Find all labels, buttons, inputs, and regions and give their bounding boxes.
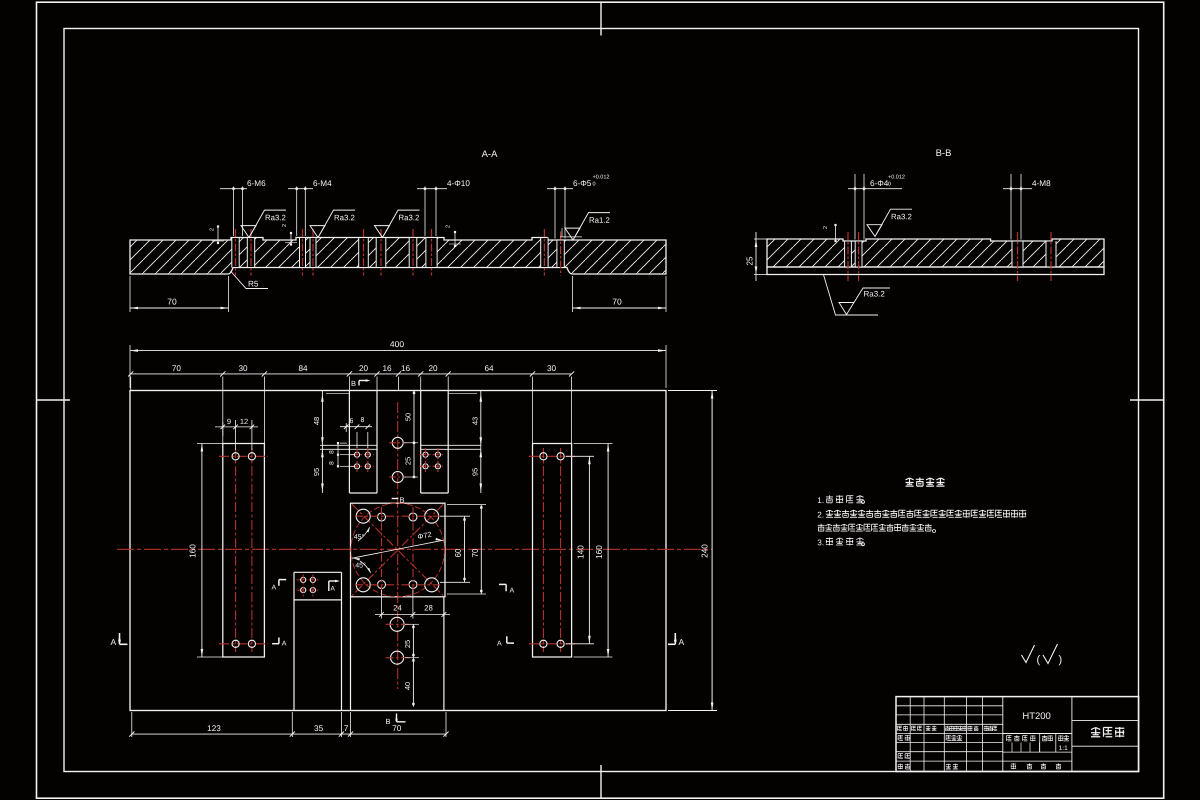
section B-B hole at x=1017.5: [1012, 242, 1023, 267]
right plate hole: [557, 640, 564, 647]
ledge lines right: [421, 444, 481, 446]
svg-text:3.: 3.: [817, 538, 824, 547]
diagonal centerline 45 deg 1: [352, 504, 443, 595]
section A-A hole at x=381: [376, 238, 386, 267]
dimension 400 overall: [129, 345, 131, 388]
callout dimension 6-M4: [296, 187, 298, 237]
svg-text:B-B: B-B: [936, 148, 952, 159]
left plate hole centerline vertical 1: [235, 448, 237, 652]
right plate hole: [557, 453, 564, 460]
horizontal tick through hole rows: [355, 515, 440, 517]
lower hole 1: [390, 617, 404, 631]
depth dimension 2: [454, 231, 456, 247]
dimension 24 and 28 below square: [381, 590, 383, 619]
surface finish mark Ra3.2: [241, 210, 286, 237]
svg-text:2: 2: [446, 225, 452, 228]
svg-text:0: 0: [888, 182, 891, 188]
diagonal centerline 45 deg 2: [352, 504, 443, 595]
svg-text:2: 2: [823, 226, 829, 229]
svg-text:20: 20: [359, 364, 369, 373]
section A-A hole at x=363.5: [359, 238, 369, 267]
right plate hole: [540, 640, 547, 647]
svg-text:A: A: [330, 586, 335, 593]
svg-text:28: 28: [424, 603, 433, 612]
depth dimension 2: [835, 224, 837, 242]
right plate hole row centerline: [529, 455, 577, 457]
callout dimension 6-&#934;5: [554, 187, 556, 239]
section B-B hole at x=848: [845, 242, 852, 267]
hole centerline: [235, 229, 237, 276]
centering mark top: [600, 2, 602, 35]
callout dimension 4-&#934;10: [424, 187, 426, 237]
technical requirements title: [906, 478, 914, 486]
surface finish general mark: [1022, 645, 1035, 663]
title block audit row: [898, 754, 903, 759]
svg-text:): ): [1058, 654, 1062, 666]
svg-text:8: 8: [329, 450, 336, 454]
callout dimension 6-M6: [233, 187, 235, 237]
hole centerline: [312, 229, 314, 276]
left plate hole: [232, 640, 239, 647]
hole centerline: [250, 229, 252, 276]
left plate hole: [248, 640, 255, 647]
dimension 160 right: [574, 443, 613, 445]
svg-text:B: B: [399, 496, 404, 505]
svg-text:8: 8: [329, 461, 336, 465]
svg-text:160: 160: [189, 544, 198, 558]
svg-text:A: A: [271, 585, 276, 592]
callout dimension 6-&#934;4: [854, 174, 856, 240]
svg-text:140: 140: [577, 545, 586, 559]
surface finish mark Ra3.2: [375, 210, 420, 237]
svg-text:6-M4: 6-M4: [313, 179, 332, 188]
ledge lines left: [320, 444, 377, 446]
section A-A hole at x=235.5: [232, 238, 239, 267]
svg-text:240: 240: [701, 544, 710, 558]
svg-text:6-Φ4: 6-Φ4: [870, 179, 889, 188]
upper center hole 2: [392, 472, 403, 483]
depth dimension 2: [217, 226, 219, 245]
stage mark row: [1007, 736, 1012, 741]
section mark B middle jog: [392, 498, 399, 500]
svg-text:B: B: [385, 717, 390, 726]
svg-text:30: 30: [238, 364, 248, 373]
section A-A hole at x=431.5: [426, 238, 437, 267]
hole centerline: [380, 229, 382, 276]
small hole centerline vertical: [381, 507, 383, 595]
upper right column: [420, 391, 422, 494]
left plate hole: [232, 453, 239, 460]
left plate hole row centerline: [219, 455, 268, 457]
svg-text:70: 70: [392, 724, 402, 733]
right plate hole centerline vertical 2: [560, 448, 562, 652]
svg-text:12: 12: [240, 417, 248, 426]
svg-text:0: 0: [592, 182, 595, 188]
svg-text:A: A: [110, 637, 116, 647]
dimension 8 8 small vertical: [337, 443, 339, 466]
section A mark near lower-left column: [328, 581, 330, 591]
hole centerline: [847, 232, 849, 281]
right plate hole centerline vertical 1: [542, 448, 544, 652]
right mounting plate: [533, 444, 572, 658]
part name box: [1072, 720, 1139, 722]
upper right hole cluster: [420, 454, 444, 456]
tech requirement line 3: [818, 524, 825, 531]
svg-text:4-Φ10: 4-Φ10: [447, 179, 470, 188]
svg-text:7: 7: [344, 724, 349, 733]
center vertical red centerline: [397, 402, 399, 689]
left plate hole: [248, 453, 255, 460]
svg-text:2: 2: [282, 224, 288, 227]
hole centerline: [412, 229, 414, 276]
svg-text:A-A: A-A: [482, 149, 499, 160]
dimension 60 right of square: [440, 515, 470, 517]
dimension 160 left: [197, 443, 224, 445]
svg-text:+0.012: +0.012: [888, 175, 905, 181]
svg-text:Ra3.2: Ra3.2: [334, 213, 355, 222]
depth tick near x=562: [560, 236, 582, 238]
svg-text:1:1: 1:1: [1059, 745, 1068, 752]
upper center hole 1: [392, 437, 403, 448]
surface finish mark Ra3.2: [310, 210, 355, 237]
bottom dimension chain 123 35 7 70: [132, 733, 446, 735]
fillet radius label R5: [231, 271, 269, 289]
left plate hole row centerline: [219, 643, 268, 645]
svg-text:A: A: [282, 641, 287, 648]
title block middle section: [1003, 733, 1072, 735]
svg-text:70: 70: [167, 296, 177, 306]
dimension 43 and 95 right: [480, 391, 482, 494]
title block craft row: [898, 764, 903, 770]
section A-A hole at x=251: [247, 238, 254, 267]
section A-A hole at x=560.6: [557, 241, 564, 267]
section A jog mark lower left: [272, 643, 279, 645]
section B-B bottom strip: [767, 267, 1104, 275]
hole centerline: [363, 229, 365, 276]
svg-text:64: 64: [484, 364, 494, 373]
svg-text:35: 35: [314, 724, 324, 733]
bolt circle large holes (4-phi10): [356, 509, 370, 523]
dimension 70 right of square: [447, 504, 486, 506]
small hole centerline vertical: [412, 507, 414, 595]
section A jog mark lower right: [506, 636, 508, 643]
svg-text:25: 25: [746, 256, 755, 265]
svg-text:Ra1.2: Ra1.2: [589, 216, 610, 225]
svg-text:16: 16: [382, 364, 392, 373]
title block design row: [898, 735, 903, 740]
svg-text:25: 25: [403, 640, 412, 648]
svg-text:+0.012: +0.012: [592, 175, 609, 181]
dimension 140: [566, 455, 594, 457]
lower center column: [350, 597, 352, 711]
svg-text:6-Φ5: 6-Φ5: [573, 179, 592, 188]
section A-A hatched bar: [130, 238, 666, 275]
svg-text:30: 30: [547, 364, 557, 373]
svg-text:70: 70: [612, 296, 622, 306]
left plate hole centerline vertical 2: [251, 448, 253, 652]
surface finish mark Ra1.2: [565, 213, 610, 240]
part name jiajuti: [1091, 728, 1100, 737]
section A-A hole at x=302.5: [300, 238, 306, 267]
bolt circle phi72: [351, 503, 445, 597]
svg-text:Ra3.2: Ra3.2: [863, 290, 885, 299]
centering mark right: [1130, 399, 1164, 401]
dimension 70 right: [572, 276, 574, 312]
svg-text:123: 123: [207, 724, 221, 733]
svg-text:6: 6: [350, 418, 354, 425]
plan view outer rectangle: [130, 391, 666, 711]
bolt circle small holes: [378, 513, 386, 521]
top dimension chain 70 30 84 20 16 16 20 64 30: [131, 373, 572, 375]
svg-text:Ra3.2: Ra3.2: [398, 213, 419, 222]
title block row labels: [898, 726, 902, 731]
dimension 240 overall height: [668, 390, 717, 392]
hole centerline: [858, 232, 860, 281]
hole centerline: [302, 229, 304, 276]
title block outer frame: [896, 697, 1139, 772]
svg-text:A: A: [678, 637, 684, 647]
lower hole 2: [391, 651, 404, 664]
svg-text:95: 95: [312, 468, 321, 476]
svg-text:24: 24: [393, 603, 402, 612]
svg-text:25: 25: [404, 457, 413, 465]
svg-text:A: A: [497, 641, 502, 648]
svg-text:6-M6: 6-M6: [247, 179, 266, 188]
centering mark left: [37, 399, 71, 401]
svg-text:400: 400: [390, 339, 404, 349]
section A-A hole at x=413: [409, 238, 417, 267]
svg-text:HT200: HT200: [1022, 711, 1051, 722]
title block left grid: [909, 697, 911, 772]
svg-text:R5: R5: [248, 280, 259, 289]
left mounting plate: [223, 444, 265, 658]
dimension phi72 leader: [352, 540, 443, 558]
svg-text:160: 160: [595, 545, 604, 559]
svg-text:9: 9: [227, 417, 231, 426]
dimension 70 left: [129, 276, 131, 312]
centering mark bottom: [600, 765, 602, 798]
upper left hole cluster: [351, 454, 374, 456]
svg-text:43: 43: [471, 417, 480, 425]
hole centerline: [431, 229, 433, 276]
hole centerline: [1017, 232, 1019, 281]
hole centerline: [560, 232, 562, 276]
svg-text:48: 48: [312, 417, 321, 425]
svg-text:Ra3.2: Ra3.2: [265, 213, 286, 222]
dimension 50 and 25 center: [413, 391, 415, 478]
center square boss: [351, 503, 446, 597]
right plate hole: [540, 453, 547, 460]
lower left column hole cluster: [297, 579, 320, 581]
right plate hole row centerline: [529, 643, 577, 645]
svg-text:A: A: [509, 588, 514, 595]
svg-text:16: 16: [401, 364, 411, 373]
svg-text:2: 2: [210, 228, 216, 231]
svg-text:20: 20: [428, 364, 438, 373]
lower left column: [293, 572, 295, 710]
svg-text:1.: 1.: [817, 496, 824, 505]
svg-text:40: 40: [403, 682, 412, 690]
dimension 25 and 40 lower: [405, 623, 419, 625]
upper left column: [348, 391, 350, 494]
dimension 25 thickness: [754, 238, 768, 240]
svg-text:4-M8: 4-M8: [1032, 179, 1051, 188]
svg-text:95: 95: [471, 468, 480, 476]
dimension 48 and 95 left: [321, 391, 323, 494]
section B-B hatched bar: [767, 239, 1104, 267]
callout dimension 4-M8: [1010, 174, 1012, 240]
depth dimension 2: [290, 232, 292, 246]
section A jog mark upper right: [505, 584, 507, 591]
dimension 6 8 upper: [345, 423, 347, 432]
section B-B hole at x=858.6: [855, 242, 862, 267]
sheet count row: [1011, 763, 1016, 769]
svg-text:Ra3.2: Ra3.2: [891, 212, 912, 221]
svg-text:70: 70: [172, 364, 182, 373]
main horizontal centerline: [117, 548, 712, 550]
svg-text:B: B: [351, 379, 356, 388]
dimension 9 and 12: [222, 422, 224, 436]
svg-text:60: 60: [454, 548, 463, 557]
svg-text:8: 8: [361, 417, 365, 424]
svg-text:2.: 2.: [817, 511, 824, 520]
svg-text:(: (: [1036, 654, 1040, 666]
section A-A hole at x=313: [310, 238, 316, 267]
hole centerline: [1050, 232, 1052, 281]
svg-text:45°: 45°: [355, 561, 366, 569]
svg-text:50: 50: [404, 413, 413, 421]
section B-B hole at x=1051: [1046, 242, 1056, 267]
surface finish mark Ra3.2 on B-B top: [867, 209, 912, 236]
surface finish mark Ra3.2 bottom of B-B: [824, 275, 891, 315]
section A-A hole at x=544.4: [541, 238, 548, 267]
svg-text:84: 84: [298, 364, 308, 373]
hole centerline: [543, 229, 545, 276]
svg-text:70: 70: [471, 548, 480, 557]
